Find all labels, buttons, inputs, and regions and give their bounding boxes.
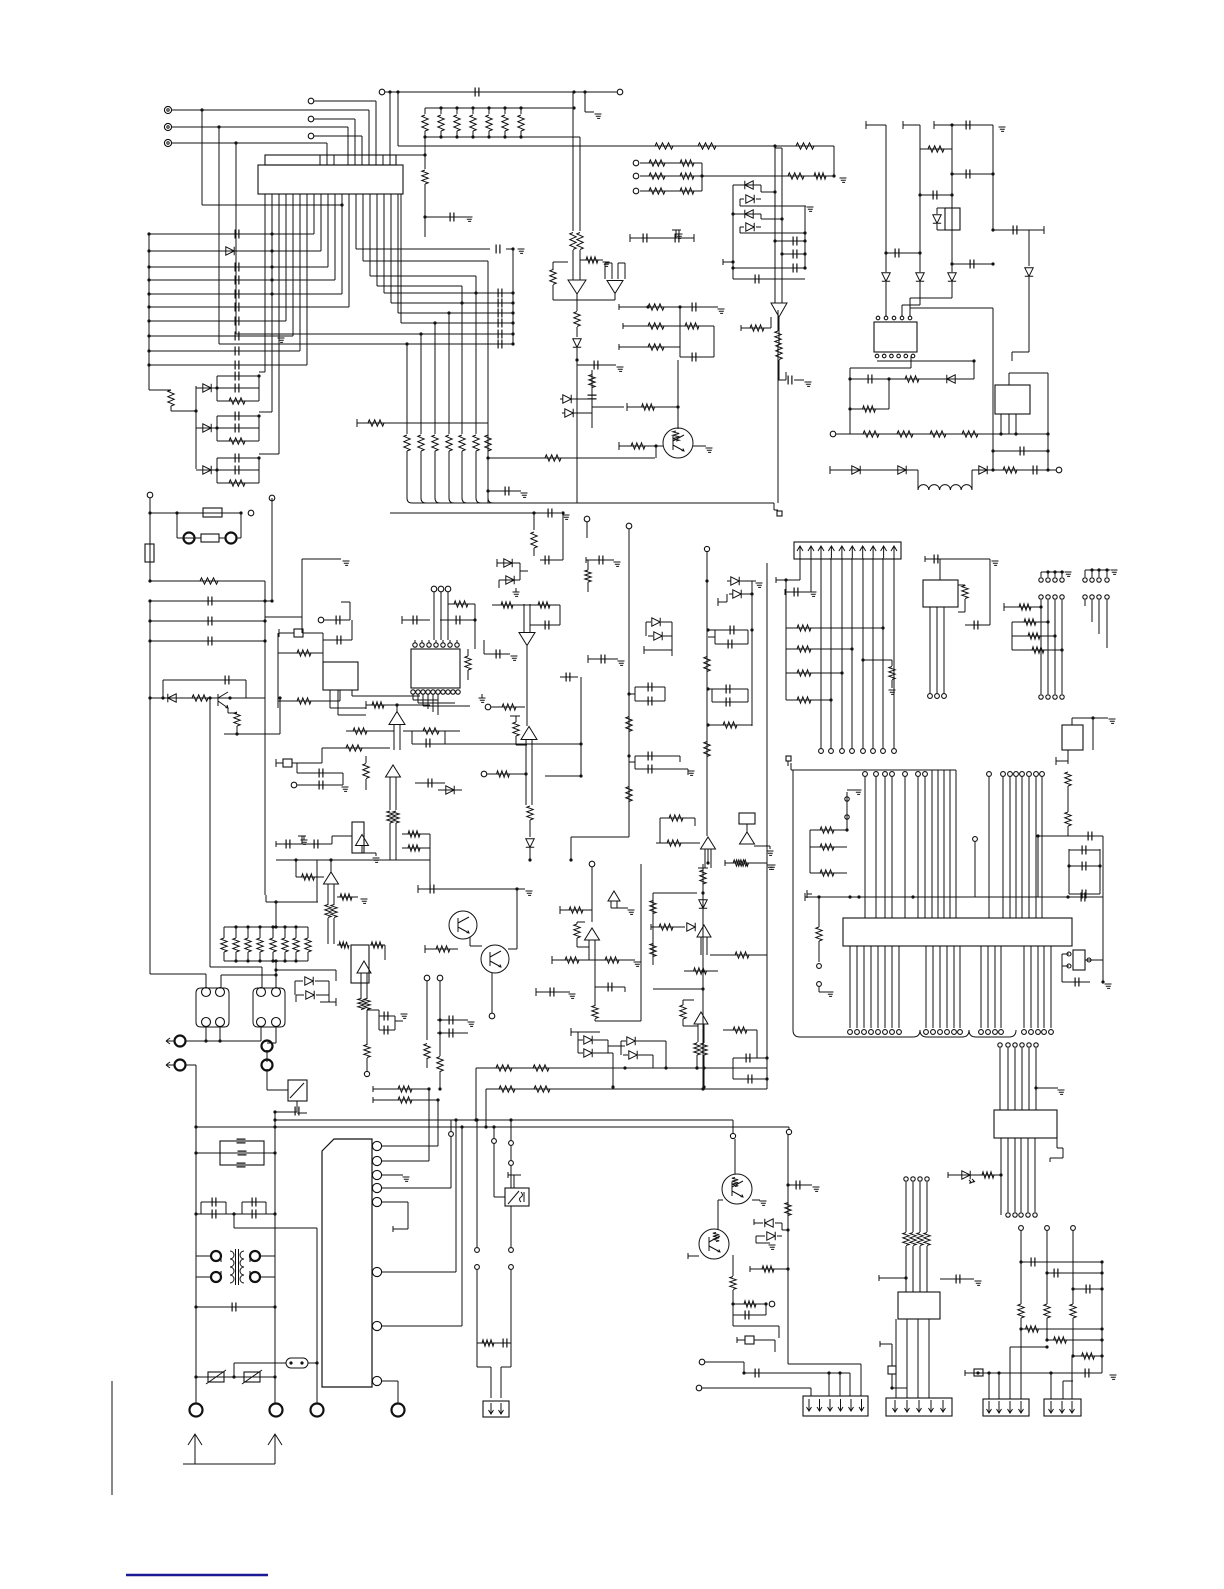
capacitor [648,765,652,774]
bus wire [1023,946,1025,1028]
diode [947,375,955,383]
wire [261,967,263,988]
capacitor [252,1198,256,1207]
junction [340,203,343,206]
wire [653,988,703,990]
wire [713,326,715,357]
wire [715,643,748,645]
wire [612,1053,614,1087]
arrow [859,1399,864,1411]
terminal [311,1404,324,1417]
wire [1102,836,1104,897]
bus wire [904,777,906,918]
capacitor [594,361,598,370]
wire [306,194,308,365]
fuse F1 [203,508,222,517]
arrow [166,1062,174,1068]
terminal [883,1030,888,1035]
wire [171,410,196,412]
wire [1069,893,1100,895]
transformer secondary [240,1251,244,1283]
capacitor [252,1210,256,1219]
terminal [925,1177,929,1181]
resistor [655,143,673,149]
wire [636,1040,666,1042]
wire [149,364,307,366]
wire [680,356,714,358]
capacitor [235,303,239,312]
wire [292,762,322,764]
connector pin [164,106,171,113]
junction [274,968,277,971]
connector pin [777,511,782,516]
wire [584,92,586,112]
amplifier U14 [701,837,716,849]
wire [276,843,332,845]
capacitor [643,234,647,243]
diode [203,384,211,392]
wire [428,1089,430,1161]
capacitor [1081,893,1085,902]
bus wire [510,1206,512,1247]
wire [703,1024,705,1042]
wire [150,620,265,622]
junction [509,1118,512,1121]
wire [739,199,741,206]
wire [588,940,590,960]
wire [1067,826,1069,836]
ground [401,1014,408,1018]
junction [234,141,237,144]
resistor [730,1277,736,1290]
led [962,1171,970,1179]
bus wire [576,365,578,503]
capacitor [726,698,730,707]
terminal [871,749,876,754]
ground [706,448,713,452]
ground [518,249,525,253]
wire [703,1042,705,1043]
bus wire [218,127,220,344]
wire [210,966,262,968]
junction [1105,568,1108,571]
wire [439,1071,441,1089]
wire [149,350,300,352]
bus wire [1020,1138,1022,1212]
bus wire [276,859,430,861]
wire [988,1373,990,1399]
wire [810,846,847,848]
wire [781,280,783,303]
resistor [364,999,370,1010]
capacitor [498,340,502,349]
terminal [890,1030,895,1035]
junction [773,239,776,242]
varistor RV1 [206,1370,226,1384]
wire [295,860,297,877]
wire [177,537,196,539]
wire [217,469,259,471]
wire [626,404,628,410]
terminal [696,1385,702,1391]
resistor [649,188,665,194]
capacitor [498,289,502,298]
resistor [685,323,699,329]
crystal Y2 [283,759,292,767]
wire [483,640,485,654]
wire [504,108,506,114]
wire [570,837,572,860]
arrow [489,1403,494,1414]
capacitor [384,1026,388,1035]
ground [403,1177,410,1181]
resistor [816,927,822,941]
bus wire [1047,373,1049,470]
wire [196,1306,275,1308]
wire [951,282,953,298]
arrow pin [818,546,824,558]
wire [247,927,249,938]
wire [696,1042,698,1043]
junction [273,1151,276,1154]
pin [451,690,455,694]
wire [437,1100,439,1146]
wire [484,653,510,655]
terminal [1013,1043,1017,1047]
ground [563,515,570,519]
wire [778,360,780,380]
arrow [838,1399,843,1411]
transistor Q3 [449,911,477,939]
wire [438,789,462,791]
wire [640,175,702,177]
wire [910,356,912,368]
junction [803,231,806,234]
wire [418,702,455,704]
junction [519,106,522,109]
wire [335,970,337,981]
wire [1021,1328,1102,1330]
wire [683,999,694,1001]
wire [540,559,563,561]
arrow [1019,1401,1024,1413]
capacitor [974,621,978,630]
bus wire [953,946,955,1028]
wire [1098,570,1100,577]
wire [679,756,681,762]
transistor Q6 [699,1229,729,1259]
wire [382,1160,429,1162]
wire [447,592,449,640]
wire [1029,229,1044,231]
bus wire [906,1319,908,1398]
wire [420,344,422,434]
amplifier U10 [386,765,401,777]
resistor [513,722,519,736]
junction [263,599,266,602]
bus wire [856,946,858,1028]
junction [257,456,260,459]
resistor [626,787,632,802]
resistor [346,745,362,751]
terminal [1006,1043,1010,1047]
bus wire [195,1307,197,1404]
resistor [200,578,218,584]
ic U24 [994,1110,1057,1138]
capacitor [238,1151,247,1155]
regulator U5 [945,208,960,230]
wire [529,848,531,860]
wire [683,1025,698,1027]
wire [733,213,756,215]
bus wire [849,946,851,1028]
wire [258,416,260,441]
wire [535,988,537,996]
resistor [776,345,782,360]
bus wire [702,864,704,1089]
junction [627,754,630,757]
wire [276,969,336,971]
junction [848,377,851,380]
wire [296,1101,298,1112]
wire [702,1387,811,1389]
junction [147,278,150,281]
wire [618,442,620,450]
varistor RV1 [208,1372,224,1382]
bus wire [785,580,787,700]
wire [368,110,370,165]
resistor [454,601,468,607]
wire [510,1343,512,1367]
resistor [694,1043,700,1055]
junction [850,647,853,650]
resistor [502,704,516,710]
transistor Q1 [663,428,693,458]
wire [937,207,945,209]
ground [513,592,520,596]
wire [619,445,663,447]
wire [770,317,772,328]
wire [474,620,476,649]
wire [241,1202,243,1214]
wire [382,1201,408,1203]
wire [366,1010,368,1045]
capacitor [1013,226,1017,235]
wire [964,1370,966,1376]
diode [733,590,741,598]
resistor [704,742,710,757]
resistor [496,1065,512,1071]
wire [354,119,356,165]
transistor Q4 [481,945,509,973]
arrow pin [828,546,834,558]
junction [148,639,151,642]
wire [605,262,612,264]
resistor [438,115,444,131]
wire [591,370,593,428]
wire [782,1229,788,1231]
arrow pin [870,546,876,558]
wire [194,537,201,539]
wire [435,498,440,503]
terminal [509,1141,514,1146]
junction [569,858,572,861]
transformer pin [211,1272,221,1282]
diode [506,576,514,584]
wire [437,1032,468,1034]
junction [1039,605,1042,608]
wire [732,1304,734,1315]
junction [270,249,273,252]
capacitor [934,555,938,564]
wire [297,784,343,786]
wire [448,313,450,323]
wire [732,1315,734,1326]
arrow [893,1400,898,1412]
wire [580,677,582,776]
wire [475,276,477,293]
bus wire [1028,1048,1030,1110]
junction [848,895,851,898]
wire [324,619,350,621]
junction [832,174,835,177]
wire [296,994,304,996]
capacitor [1082,862,1086,871]
wire [635,755,680,757]
wire [389,92,391,165]
ic U23 [898,1292,940,1319]
wire [163,679,246,681]
wire [488,490,521,492]
wire [828,1373,830,1396]
wire [295,995,297,1002]
junction [1100,1338,1103,1341]
wire [475,293,477,434]
ground [1065,572,1072,576]
wire [933,121,935,129]
wire [1073,1355,1102,1357]
capacitor [748,1075,752,1084]
junction [1019,1260,1022,1263]
wire [486,1088,767,1090]
wire [351,620,353,640]
junction [273,1118,276,1121]
junction [503,106,506,109]
capacitor [498,330,502,339]
ground [634,962,641,966]
resistor [1054,1337,1067,1343]
wire [266,1050,268,1062]
wire [1071,1356,1073,1399]
wire [194,1462,196,1464]
resistor [482,1340,494,1346]
wire [630,237,694,239]
ground [760,1201,767,1205]
bus wire [939,946,941,1028]
capacitor [208,617,212,626]
wire [297,1112,307,1114]
wire [303,632,323,634]
ground [827,992,834,996]
photocoupler pin [272,988,281,997]
resistor [297,650,311,656]
pin [897,354,901,358]
capacitor [1075,978,1079,987]
junction [1100,1354,1103,1357]
capacitor [601,655,605,664]
junction [764,1302,767,1305]
wire [640,190,702,192]
wire [334,194,336,280]
wire [778,1326,780,1338]
wire [610,901,612,908]
wire [879,1341,881,1347]
junction [194,1212,197,1215]
wire [785,591,811,593]
wire [531,740,533,805]
wire [461,286,463,303]
bus wire [875,777,877,918]
bus wire [863,946,865,1028]
wire [382,1271,456,1273]
junction [147,232,150,235]
resistor [297,698,311,704]
wire [258,376,260,401]
pin [908,316,912,320]
ic U15 [739,813,755,824]
wire [330,707,366,709]
resistor [735,952,749,958]
junction [528,858,531,861]
wire [1073,1288,1102,1290]
resistor [1032,647,1044,653]
terminal [1083,595,1087,599]
wire [1028,230,1030,266]
wire [196,427,217,429]
wire [314,118,355,120]
zener [563,395,571,403]
junction [218,1039,221,1042]
junction [803,266,806,269]
amplifier U12 [519,633,535,646]
wire [732,1058,734,1079]
junction [706,861,709,864]
wire [390,512,534,514]
connector pin [372,1183,381,1192]
connector pin [786,756,791,761]
wire [891,1344,893,1366]
ground [769,865,776,869]
resistor [233,938,239,952]
resistor [570,233,576,250]
wire [560,909,592,911]
terminal [987,772,992,777]
wire [791,769,956,771]
capacitor [498,319,502,328]
wire [439,981,441,1056]
terminal [1045,1226,1050,1231]
wire [362,194,364,261]
ground [676,234,683,238]
wire [993,450,1048,452]
capacitor [608,983,612,992]
wire [652,1060,654,1068]
wire [760,185,762,192]
pin [892,316,896,320]
wire [778,379,786,381]
capacitor [648,683,652,692]
resistor [245,938,251,952]
